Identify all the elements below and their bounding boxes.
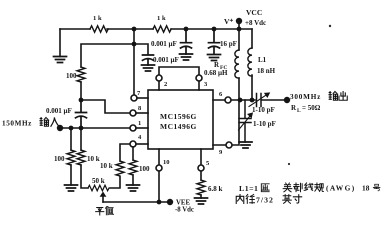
svg-text:0.001 µF: 0.001 µF [46, 107, 72, 115]
ground top-left [54, 57, 67, 63]
pin 2 loop [159, 67, 199, 90]
svg-text:16 pF: 16 pF [220, 40, 237, 48]
svg-text:8: 8 [138, 105, 142, 112]
resistor 10k input to pot [80, 128, 82, 150]
input node 150MHz [57, 125, 63, 131]
svg-text:18: 18 [362, 184, 370, 193]
svg-text:9: 9 [219, 149, 223, 156]
potentiometer 50k [88, 185, 109, 191]
inductor L1 18nH [248, 48, 252, 76]
ground under shunt trimmer [239, 142, 252, 148]
pin 5 terminal [198, 165, 204, 171]
svg-text:0.68 µH: 0.68 µH [204, 69, 228, 77]
svg-text:1-10 pF: 1-10 pF [252, 106, 275, 114]
svg-text:= 50Ω: = 50Ω [302, 104, 321, 112]
svg-text:L: L [297, 108, 301, 114]
output node 300MHz [284, 97, 290, 103]
ground under bypass cap [142, 65, 155, 71]
wire carrier branch y44 [81, 44, 134, 67]
svg-text:L1: L1 [258, 56, 267, 64]
svg-text:+8 Vdc: +8 Vdc [245, 19, 266, 27]
node junction at 134,29 [132, 27, 137, 32]
pin 2 terminal [156, 75, 162, 81]
capacitor 0.001uF top rail [181, 29, 192, 54]
pin 4 terminal [130, 141, 136, 147]
wire input rail [60, 127, 130, 129]
svg-text:5: 5 [206, 160, 210, 167]
wire 100 bottom to node [80, 82, 82, 100]
VCC terminal [238, 22, 240, 29]
pin 9 wire [213, 100, 239, 145]
ground under pin4 100 [127, 185, 140, 191]
resistor 100 upper-left [77, 67, 85, 82]
svg-text:150MHz: 150MHz [2, 120, 32, 128]
ground under input 100 [65, 185, 78, 191]
resistor R 1k left [90, 26, 108, 32]
pin 3 terminal [196, 75, 202, 81]
node junction at 186,29 [184, 27, 189, 32]
balance label [96, 208, 104, 215]
resistor R 1k right [153, 26, 171, 32]
pin 10 stub [158, 149, 160, 202]
svg-text:50 k: 50 k [92, 177, 105, 185]
svg-text:3: 3 [204, 81, 208, 88]
resistor 6.8k [197, 180, 205, 195]
node junction at 81,100 [79, 98, 84, 103]
svg-text:100: 100 [54, 155, 65, 163]
trimmer capacitor shunt 1-10pF [239, 100, 251, 142]
wire VEE rail [103, 201, 168, 203]
svg-text:L1=1: L1=1 [239, 184, 258, 193]
svg-text:V⁺: V⁺ [224, 17, 233, 26]
pin 1 terminal [130, 125, 136, 131]
node junction at 134,44 [132, 42, 137, 47]
inductor RFC 0.68uH [235, 50, 239, 78]
svg-text:10: 10 [163, 159, 170, 166]
svg-text:7/32: 7/32 [256, 196, 274, 205]
node junction 81,127 [79, 126, 84, 131]
svg-text:0.001 µF: 0.001 µF [153, 56, 179, 64]
wire left ground stem [59, 29, 61, 57]
svg-text:4: 4 [138, 134, 142, 141]
svg-text:300MHz: 300MHz [290, 93, 321, 101]
svg-text:1: 1 [138, 120, 141, 127]
pin 9 terminal [226, 142, 232, 148]
inductor L1 wire [251, 29, 253, 100]
VEE node [167, 199, 173, 205]
capacitor 0.001uF input coupling [76, 100, 87, 128]
svg-text:MC1596G: MC1596G [160, 112, 197, 121]
capacitor 0.001uF bypass pin7 [143, 55, 154, 65]
svg-text:18 nH: 18 nH [257, 67, 276, 75]
node junction 70,127 [69, 126, 74, 131]
pin 6 terminal [225, 97, 231, 103]
pin 8 wire from input cap node [81, 100, 130, 113]
node junction at 214,29 [212, 27, 217, 32]
wire vertical to pin7 [133, 29, 135, 95]
pin 8 terminal [130, 110, 136, 116]
IC U1 MC1596G box [148, 90, 213, 149]
svg-text:VCC: VCC [246, 8, 262, 17]
svg-text:MC1496G: MC1496G [160, 122, 197, 131]
svg-text:1 k: 1 k [157, 15, 166, 22]
svg-text:2: 2 [164, 81, 167, 88]
node junction VCC rail [237, 27, 242, 32]
node junction 159,201 [157, 200, 162, 205]
svg-text:(AWG): (AWG) [326, 184, 356, 193]
svg-text:VEE: VEE [176, 200, 190, 207]
note text L1 spec line2 [236, 195, 244, 204]
inductor RFC wire [238, 29, 240, 100]
pot wiper arrow [100, 192, 107, 197]
pin 7 terminal [131, 95, 137, 101]
node junction 252,100 [250, 98, 255, 103]
svg-text:0.001 µF: 0.001 µF [151, 40, 177, 48]
pin 6 wire [213, 99, 255, 101]
pin 5 stub [200, 149, 202, 180]
wire pot right to 10k [110, 177, 120, 188]
ground under 6.8k [195, 198, 208, 204]
svg-text:1-10 pF: 1-10 pF [253, 120, 276, 128]
svg-text:1 k: 1 k [93, 15, 102, 22]
svg-text:100: 100 [66, 72, 77, 80]
svg-text:100: 100 [139, 165, 150, 173]
ground under 0.001uF top rail [180, 54, 193, 60]
svg-text:-8 Vdc: -8 Vdc [175, 207, 194, 214]
svg-text:7: 7 [137, 90, 141, 97]
resistor 100 pin4 [132, 147, 134, 160]
ground under 16pF [208, 55, 221, 61]
svg-text:6: 6 [219, 91, 223, 98]
capacitor 16pF [209, 29, 220, 54]
svg-text:10 k: 10 k [100, 162, 113, 170]
pin 10 terminal [156, 165, 162, 171]
svg-text:6.8 k: 6.8 k [208, 185, 223, 193]
resistor 10k pin4 [116, 161, 124, 176]
speck [329, 25, 331, 27]
node junction 240,100 [238, 98, 243, 103]
wire top rail left [60, 28, 252, 30]
trimmer capacitor series 1-10pF [257, 94, 285, 107]
svg-text:10 k: 10 k [87, 155, 100, 163]
wire bypass cap stub [134, 44, 148, 54]
resistor 100 input shunt [70, 128, 72, 150]
